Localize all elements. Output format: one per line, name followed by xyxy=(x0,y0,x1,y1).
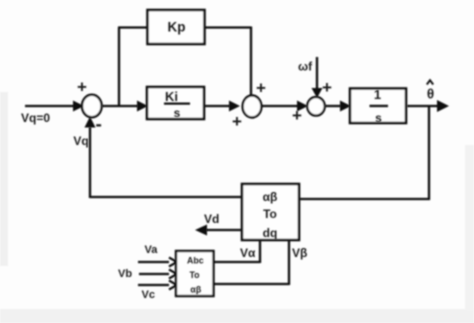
arrowhead into S3 xyxy=(297,101,308,112)
wire V-alpha vertical into ab-to-dq block xyxy=(259,240,261,263)
arrowhead Vc into abc block xyxy=(169,281,177,290)
svg-text:αβ: αβ xyxy=(190,285,201,295)
label omega-f xyxy=(298,60,313,74)
svg-text:θ: θ xyxy=(427,87,434,102)
label To in abc block xyxy=(189,270,200,280)
arrowhead Vq feedback into S1 bottom xyxy=(85,117,96,128)
label V-beta xyxy=(292,246,307,260)
svg-text:+: + xyxy=(292,106,302,125)
svg-text:1: 1 xyxy=(374,87,381,102)
block Kp xyxy=(148,10,205,44)
label Va xyxy=(145,244,159,256)
label theta-hat xyxy=(427,80,434,101)
wire V-beta vertical into ab-to-dq block xyxy=(288,240,290,285)
summing junction S2 xyxy=(243,96,262,118)
label Vd xyxy=(204,212,219,226)
svg-text:+: + xyxy=(256,79,266,98)
arrowhead into Ki block xyxy=(137,101,148,112)
block integrator 1 over s xyxy=(350,89,406,124)
scan shading right edge xyxy=(465,145,474,310)
minus sign at S1 xyxy=(96,115,102,136)
plus sign at S1 xyxy=(77,78,87,97)
label 1 over s in integrator xyxy=(370,87,389,125)
svg-text:αβ: αβ xyxy=(263,190,278,204)
plus sign at S2 top right xyxy=(256,79,266,98)
label Vq xyxy=(73,134,88,148)
wire S3 output to integrator xyxy=(325,105,341,107)
scan shading bottom edge xyxy=(0,309,474,323)
wire feedback horizontal into ab-to-dq block right side xyxy=(299,198,430,200)
arrowhead theta-hat output xyxy=(437,100,449,112)
svg-text:To: To xyxy=(263,207,277,221)
wire Vq feedback vertical up to S1 xyxy=(89,127,91,198)
svg-text:s: s xyxy=(174,106,181,120)
label Kp xyxy=(168,20,186,35)
scan shading left edge xyxy=(0,92,8,266)
label Ki numerator xyxy=(164,89,190,120)
wire branch horizontal into Kp xyxy=(118,26,148,28)
svg-text:Vb: Vb xyxy=(118,268,132,280)
svg-text:Vq=0: Vq=0 xyxy=(21,111,50,125)
wire input Vq=0 to summing junction S1 xyxy=(25,105,78,107)
svg-text:-: - xyxy=(96,115,102,136)
label alpha-beta in abc block xyxy=(190,285,201,295)
svg-text:Vq: Vq xyxy=(73,134,88,148)
wire feedback vertical from theta-hat node xyxy=(428,106,430,200)
wire integrator output to theta-hat arrow xyxy=(407,105,439,107)
svg-text:Vβ: Vβ xyxy=(292,246,307,260)
svg-text:s: s xyxy=(375,111,382,125)
wire Ki output to summing junction S2 xyxy=(204,105,230,107)
wire Kp output down to summing junction S2 xyxy=(250,27,252,97)
label Abc in abc block xyxy=(187,256,204,266)
wire Vd output from ab-to-dq block xyxy=(206,229,242,231)
block Ki over s xyxy=(147,87,204,119)
svg-text:To: To xyxy=(189,270,200,280)
svg-text:+: + xyxy=(77,78,87,97)
wire Va input xyxy=(138,261,169,263)
svg-text:Abc: Abc xyxy=(187,256,204,266)
wire V-alpha horizontal from abc block xyxy=(213,261,260,263)
wire Vc input xyxy=(138,284,169,286)
wire branch vertical to Kp input xyxy=(118,28,120,108)
plus sign at S2 bottom left xyxy=(232,112,242,131)
plus sign at S3 top right xyxy=(322,78,332,97)
wire omega-f input vertical into S3 xyxy=(316,57,318,90)
svg-text:dq: dq xyxy=(263,226,278,240)
arrowhead Va into abc block xyxy=(169,258,177,267)
label V-alpha xyxy=(240,246,256,260)
arrowhead Vd output pointing left xyxy=(195,225,207,236)
summing junction S3 xyxy=(307,97,324,116)
label Vb xyxy=(118,268,132,280)
svg-text:Vα: Vα xyxy=(240,246,256,260)
arrowhead Vb into abc block xyxy=(169,270,177,279)
wire Vb input xyxy=(139,273,169,275)
wire Vq feedback horizontal from ab-to-dq block left side xyxy=(90,196,242,198)
svg-text:Vd: Vd xyxy=(204,212,219,226)
label Vc xyxy=(142,289,155,301)
arrowhead omega-f into S3 top xyxy=(312,88,323,98)
label alpha-beta in dq block xyxy=(263,190,278,204)
plus sign at S3 bottom left xyxy=(292,106,302,125)
summing junction S1 xyxy=(82,95,102,117)
svg-text:Kp: Kp xyxy=(168,20,186,35)
svg-text:Vc: Vc xyxy=(142,289,155,301)
block alpha-beta to dq xyxy=(242,184,299,240)
svg-text:Va: Va xyxy=(145,244,159,256)
arrowhead into S1 xyxy=(73,101,84,112)
svg-text:+: + xyxy=(232,112,242,131)
wire S1 output to Ki block xyxy=(102,105,138,107)
wire V-beta horizontal from abc block xyxy=(213,283,289,285)
label To in dq block xyxy=(263,207,277,221)
wire Kp output horizontal xyxy=(204,26,251,28)
label dq in dq block xyxy=(263,226,278,240)
label Vq=0 xyxy=(21,111,50,125)
svg-text:Ki: Ki xyxy=(165,89,178,104)
block Abc to alpha-beta xyxy=(176,251,214,296)
arrowhead into S2 xyxy=(229,101,240,112)
arrowhead into integrator xyxy=(340,101,351,112)
wire S2 output to summing junction S3 xyxy=(261,105,299,107)
svg-text:+: + xyxy=(322,78,332,97)
svg-text:ωf: ωf xyxy=(298,60,313,74)
